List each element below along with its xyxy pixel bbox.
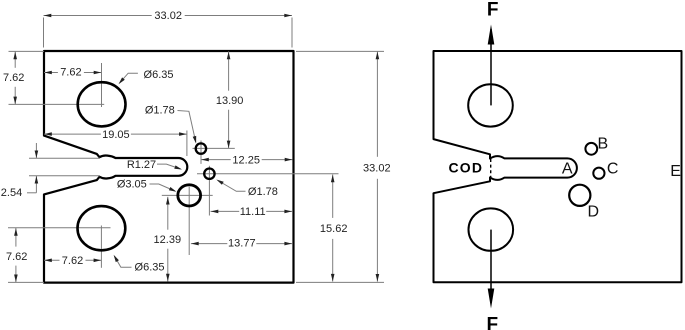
center lines upper 1.78 hole [193, 141, 235, 164]
dimension 12.39 [153, 197, 182, 282]
svg-text:B: B [597, 135, 608, 152]
dimension 15.62 [318, 175, 349, 282]
svg-text:Ø1.78: Ø1.78 [145, 104, 175, 116]
center lines upper 6.35 hole [9, 63, 105, 107]
dimension 12.25 [201, 154, 293, 166]
label diameter 6.35 upper with leader [119, 69, 174, 84]
svg-text:13.90: 13.90 [216, 95, 244, 107]
hole D [569, 185, 590, 206]
svg-text:15.62: 15.62 [320, 223, 348, 235]
F label top [487, 0, 499, 20]
dimension 33.02 top width [44, 10, 293, 48]
svg-text:7.62: 7.62 [6, 251, 27, 263]
hole C [593, 168, 604, 179]
svg-text:D: D [588, 203, 600, 220]
upper hole diameter 1.78 [196, 143, 206, 153]
dimension 7.62 top-left vertical [1, 51, 44, 104]
svg-text:13.77: 13.77 [228, 238, 256, 250]
dimension 33.02 right height [296, 51, 393, 282]
label diameter 3.05 with leader [117, 179, 177, 192]
dimension 13.90 [215, 51, 245, 148]
dimension 19.05 [44, 129, 187, 156]
center lines lower 1.78 hole [197, 166, 339, 216]
center lines lower 6.35 hole [8, 226, 111, 268]
node A crack tip label [562, 161, 573, 178]
svg-text:19.05: 19.05 [102, 129, 130, 141]
lower hole diameter 1.78 [204, 169, 214, 179]
hole diameter 3.05 [178, 185, 201, 206]
left specimen outline with V-notch and slot [44, 51, 294, 283]
label diameter 1.78 upper with leader [145, 104, 196, 143]
center lines 3.05 hole [162, 187, 213, 255]
svg-text:A: A [562, 161, 573, 178]
dimension 13.77 [191, 237, 292, 249]
svg-text:E: E [670, 163, 681, 180]
svg-text:12.39: 12.39 [154, 234, 182, 246]
COD dashed measurement line [490, 159, 492, 178]
lower loading hole right [469, 208, 514, 250]
dimension 7.62 bottom horizontal [44, 255, 101, 267]
dimension 7.62 top horizontal [44, 66, 102, 78]
force line top [488, 25, 495, 106]
COD label [449, 159, 484, 175]
dimension 7.62 bottom-left vertical [4, 228, 44, 283]
label diameter 6.35 lower with leader [114, 255, 165, 274]
svg-text:COD: COD [449, 159, 484, 175]
hole B [585, 143, 597, 155]
svg-text:C: C [607, 160, 619, 177]
svg-text:Ø3.05: Ø3.05 [117, 179, 147, 191]
node C label [607, 160, 619, 177]
force line bottom [488, 230, 495, 309]
upper hole diameter 6.35 [78, 82, 126, 126]
svg-text:7.62: 7.62 [3, 72, 24, 84]
svg-text:Ø1.78: Ø1.78 [248, 186, 278, 198]
extension lines for 2.54 slot width [29, 158, 100, 176]
dimension 2.54 with leader [1, 143, 38, 199]
svg-text:Ø6.35: Ø6.35 [135, 262, 165, 274]
node B label [597, 135, 608, 152]
svg-text:2.54: 2.54 [1, 187, 22, 199]
node D label [588, 203, 600, 220]
svg-text:F: F [486, 315, 498, 330]
node E label [670, 163, 681, 180]
svg-text:11.11: 11.11 [240, 206, 266, 218]
svg-text:33.02: 33.02 [363, 163, 391, 175]
svg-text:7.62: 7.62 [62, 255, 83, 267]
svg-text:12.25: 12.25 [232, 154, 260, 166]
svg-text:7.62: 7.62 [60, 66, 81, 78]
svg-text:Ø6.35: Ø6.35 [144, 69, 174, 81]
svg-text:33.02: 33.02 [154, 10, 182, 22]
label R1.27 with leader [127, 159, 182, 171]
svg-text:R1.27: R1.27 [127, 159, 156, 171]
svg-text:F: F [487, 0, 499, 20]
label diameter 1.78 lower with leader [216, 180, 278, 199]
lower hole diameter 6.35 [78, 206, 126, 250]
upper loading hole right [468, 84, 513, 126]
right specimen outline with V-notch and slot [434, 51, 682, 282]
F label bottom [486, 315, 498, 330]
dimension 11.11 [211, 206, 293, 218]
